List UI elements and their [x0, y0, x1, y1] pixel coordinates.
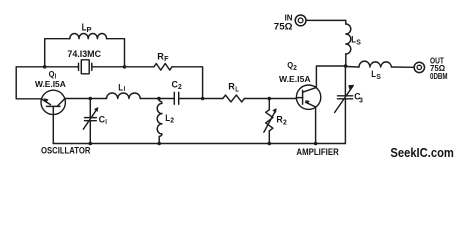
- svg-text:2: 2: [170, 118, 174, 125]
- svg-text:74.I3MC: 74.I3MC: [67, 49, 101, 59]
- svg-text:R: R: [157, 51, 164, 62]
- svg-text:0DBM: 0DBM: [430, 71, 448, 81]
- svg-text:3: 3: [359, 97, 363, 104]
- svg-text:L: L: [118, 82, 123, 93]
- svg-text:S: S: [376, 74, 381, 81]
- svg-text:P: P: [87, 27, 92, 34]
- svg-text:2: 2: [293, 65, 297, 72]
- svg-text:R: R: [228, 81, 235, 92]
- svg-text:I: I: [124, 86, 126, 93]
- svg-text:S: S: [356, 39, 361, 46]
- svg-text:I: I: [105, 119, 107, 126]
- svg-text:2: 2: [178, 84, 182, 91]
- svg-text:2: 2: [283, 120, 287, 127]
- svg-text:L: L: [235, 87, 239, 94]
- svg-text:W.E.I5A: W.E.I5A: [35, 79, 66, 89]
- svg-text:75Ω: 75Ω: [274, 21, 293, 31]
- svg-text:F: F: [164, 56, 169, 63]
- svg-text:AMPLIFIER: AMPLIFIER: [296, 147, 339, 157]
- svg-text:W.E.I5A: W.E.I5A: [279, 74, 311, 84]
- svg-text:SeekIC.com: SeekIC.com: [390, 145, 454, 160]
- svg-text:OSCILLATOR: OSCILLATOR: [41, 146, 91, 156]
